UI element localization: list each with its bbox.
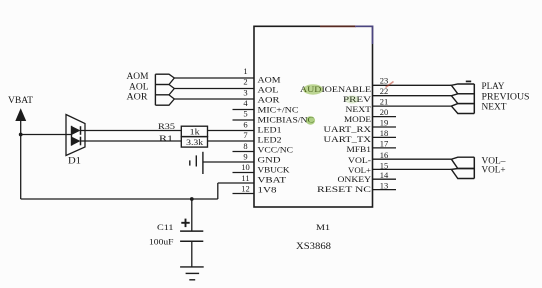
svg-text:LED1: LED1 [258, 126, 282, 135]
wire VBAT vertical [20, 121, 22, 200]
svg-text:VBAT: VBAT [258, 176, 287, 185]
svg-text:RESET NC: RESET NC [317, 185, 372, 194]
svg-text:16: 16 [380, 150, 389, 160]
svg-text:AOL: AOL [129, 82, 149, 92]
svg-text:C11: C11 [157, 222, 174, 232]
svg-text:22: 22 [380, 86, 389, 96]
connector J1 pin NEXT [451, 104, 474, 114]
svg-text:VOL+: VOL+ [482, 165, 506, 175]
wire rail up to pin 11 [217, 183, 219, 199]
node AOM/AOL/AOR pointer group [154, 74, 156, 105]
diode D1 bottom cathode bar [80, 137, 82, 146]
svg-text:9: 9 [243, 151, 247, 161]
svg-text:AOM: AOM [258, 75, 282, 84]
svg-text:100uF: 100uF [149, 237, 174, 247]
pin 9 GND stub [203, 161, 254, 163]
connector J1 PLAY/PREVIOUS/NEXT [473, 84, 475, 114]
svg-text:8: 8 [243, 141, 247, 151]
svg-text:13: 13 [380, 181, 389, 191]
pin 16 VOL- stub [373, 158, 452, 160]
diode D1 top cathode bar [80, 126, 82, 135]
wire bottom rail VBAT [21, 198, 218, 200]
wire D1 to R35 [81, 130, 182, 132]
wire rail to C11 [191, 199, 193, 231]
svg-text:21: 21 [380, 96, 389, 106]
svg-text:VOL-: VOL- [348, 156, 371, 165]
pin 14 ONKEY stub [373, 178, 397, 180]
node junction VBAT/D1 [19, 133, 23, 137]
pin 5 MICBIAS/NC stub [233, 119, 255, 121]
diode D1 common anode bar [71, 126, 73, 146]
diode D1 package outline [66, 115, 85, 156]
svg-text:PLAY: PLAY [482, 81, 505, 91]
svg-text:2: 2 [243, 77, 247, 87]
svg-text:14: 14 [380, 170, 389, 180]
svg-text:6: 6 [243, 119, 247, 129]
pin 6 LED1 stub [208, 130, 255, 132]
pin 22 PREV stub [373, 95, 452, 97]
svg-text:R1: R1 [159, 133, 173, 143]
svg-text:12: 12 [241, 183, 250, 193]
pin 4 MIC+/NC stub [233, 109, 255, 111]
connector J1 pin PREVIOUS [451, 94, 474, 104]
pin 23 AUDIOENABLE stub [373, 84, 452, 86]
svg-text:VCC/NC: VCC/NC [258, 146, 294, 155]
svg-text:23: 23 [380, 75, 389, 85]
node pointer AOL [155, 85, 174, 95]
svg-text:3: 3 [243, 87, 247, 97]
node junction rail/C11 [190, 197, 194, 201]
pin 15 VOL+ stub [373, 168, 452, 170]
pin 12 1V8 stub [233, 193, 255, 195]
connector J2 pin VOL+ [451, 169, 474, 179]
diode D1 bottom diode triangle [72, 137, 81, 146]
svg-text:GND: GND [258, 156, 281, 165]
svg-text:NEXT: NEXT [482, 102, 507, 112]
svg-text:PREVIOUS: PREVIOUS [482, 91, 530, 101]
wire VBAT to D1 [21, 134, 72, 136]
node pointer AOM [155, 74, 174, 84]
svg-text:VBUCK: VBUCK [258, 166, 290, 175]
pin 1 AOM stub [174, 77, 254, 79]
ground sideways at pin 9 [202, 152, 204, 174]
diode D1 top diode triangle [72, 126, 81, 135]
svg-text:3.3k: 3.3k [186, 137, 204, 147]
op-amp U1 : IC M1 XS3868 body [254, 26, 373, 207]
pin 17 MFB1 stub [373, 147, 397, 149]
svg-text:VBAT: VBAT [8, 95, 34, 105]
connector J2 pin VOL- [451, 157, 474, 168]
pin 8 VCC/NC stub [233, 151, 255, 153]
svg-text:1: 1 [243, 66, 247, 76]
decorative watermark (not labelled further) [386, 82, 394, 88]
pin 10 VBUCK stub [233, 172, 255, 174]
svg-text:18: 18 [380, 128, 389, 138]
svg-text:XS3868: XS3868 [296, 241, 332, 251]
pin 20 MODE stub [373, 116, 397, 118]
svg-text:20: 20 [380, 107, 389, 117]
svg-text:AOM: AOM [127, 71, 149, 81]
resistor R1 body 3.3k [181, 137, 207, 148]
connector J1 pin PLAY [451, 84, 474, 94]
pin 11 VBAT stub [218, 182, 254, 184]
svg-text:UART_TX: UART_TX [324, 135, 372, 144]
wire D1 to R1 [81, 140, 182, 142]
svg-text:ONKEY: ONKEY [338, 175, 372, 184]
svg-text:11: 11 [241, 173, 249, 183]
svg-text:1k: 1k [190, 127, 201, 137]
ground below C11 [180, 266, 204, 268]
power VBAT arrow [15, 108, 26, 121]
svg-text:10: 10 [241, 162, 250, 172]
pin 19 UART_RX stub [373, 126, 397, 128]
pin 13 RESET NC stub [373, 189, 397, 191]
resistor R35 body 1k [181, 126, 207, 136]
svg-text:15: 15 [380, 160, 389, 170]
svg-text:1V8: 1V8 [258, 186, 277, 195]
svg-text:VOL+: VOL+ [348, 166, 371, 175]
svg-text:MFB1: MFB1 [347, 145, 372, 154]
pin 2 AOL stub [174, 88, 254, 90]
svg-text:AOR: AOR [258, 95, 281, 104]
capacitor C11 top plate [180, 230, 203, 232]
svg-text:LED2: LED2 [258, 136, 282, 145]
svg-text:UART_RX: UART_RX [324, 125, 372, 134]
svg-text:D1: D1 [68, 156, 81, 166]
svg-text:MIC+/NC: MIC+/NC [258, 105, 300, 114]
svg-text:R35: R35 [158, 121, 175, 131]
capacitor C11 polarity plus [181, 222, 189, 224]
svg-text:MODE: MODE [344, 115, 371, 124]
connector J2 VOL-/VOL+ [473, 157, 475, 178]
svg-text:17: 17 [380, 139, 389, 149]
wire C11 to ground [191, 241, 193, 267]
svg-text:NEXT: NEXT [346, 105, 372, 114]
pin 3 AOR stub [174, 98, 254, 100]
pin 21 NEXT stub [373, 105, 452, 107]
connector J1 polarity dash [466, 80, 471, 82]
capacitor C11 bottom plate [180, 240, 203, 242]
node pointer AOR [155, 95, 174, 105]
svg-text:AOL: AOL [258, 85, 279, 94]
svg-text:7: 7 [243, 130, 247, 140]
svg-text:5: 5 [243, 109, 247, 119]
svg-text:M1: M1 [316, 222, 330, 232]
svg-text:AOR: AOR [127, 92, 148, 102]
watermark tint on IC top border [320, 25, 356, 27]
pin 18 UART_TX stub [373, 136, 397, 138]
pin 7 LED2 stub [208, 140, 255, 142]
svg-text:19: 19 [380, 118, 389, 128]
